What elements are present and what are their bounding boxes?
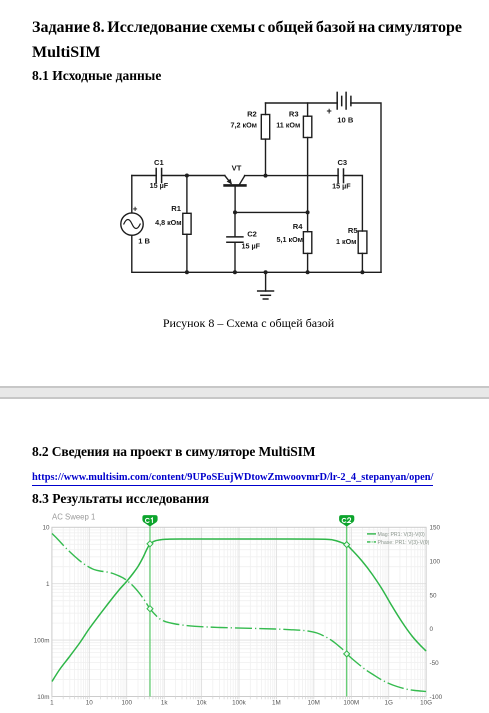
label R4 xyxy=(293,222,303,231)
svg-text:C2: C2 xyxy=(247,230,257,239)
svg-text:10: 10 xyxy=(42,525,50,532)
svg-text:15 µF: 15 µF xyxy=(150,181,169,190)
svg-text:1G: 1G xyxy=(384,700,393,707)
svg-text:R4: R4 xyxy=(293,222,303,231)
label R2 value xyxy=(231,121,258,130)
svg-text:5,1 кОм: 5,1 кОм xyxy=(277,235,304,244)
wire R5 bottom lead xyxy=(361,253,363,272)
wire R1 bottom lead xyxy=(186,234,188,272)
chart plot grid minor lines xyxy=(52,527,426,696)
wire R1 top lead xyxy=(186,176,188,214)
svg-text:150: 150 xyxy=(430,525,441,532)
svg-text:1: 1 xyxy=(46,581,50,588)
svg-text:10: 10 xyxy=(86,700,94,707)
resistor R2 xyxy=(261,115,269,140)
node: R5 bottom junction xyxy=(360,270,364,274)
node: R1 top junction xyxy=(185,174,189,178)
resistor R3 xyxy=(303,116,311,137)
label R3 value xyxy=(276,121,300,130)
svg-text:10k: 10k xyxy=(197,700,208,707)
svg-text:100k: 100k xyxy=(232,700,247,707)
chart SVG xyxy=(0,505,489,713)
label battery value 10 B xyxy=(337,116,354,125)
wire R4 bottom lead xyxy=(307,253,309,272)
svg-text:R2: R2 xyxy=(247,109,257,118)
svg-text:50: 50 xyxy=(430,592,438,599)
svg-text:100: 100 xyxy=(430,558,441,565)
svg-text:100: 100 xyxy=(121,700,132,707)
wire input row from source to C1 xyxy=(132,175,156,177)
svg-text:1: 1 xyxy=(50,700,54,707)
wire base node to R4 xyxy=(307,212,309,231)
node: R3-R4 divider junction xyxy=(306,210,310,214)
wire C3 to R5 xyxy=(344,176,363,232)
svg-text:10G: 10G xyxy=(420,700,432,707)
svg-text:Phase: PR1: V(3)-V(0): Phase: PR1: V(3)-V(0) xyxy=(378,540,430,546)
label C3 value xyxy=(332,182,351,191)
label R1 value xyxy=(155,218,182,227)
capacitor C2 xyxy=(227,237,243,242)
curve Mag PR1 xyxy=(52,539,426,682)
svg-text:VT: VT xyxy=(232,164,242,173)
wire R2 bottom lead to collector node xyxy=(265,139,267,176)
svg-text:C3: C3 xyxy=(337,158,347,167)
wire top rail right of battery and right rail down xyxy=(351,103,381,272)
node: C2 bottom junction xyxy=(233,270,237,274)
chart x axis ticks xyxy=(52,697,426,700)
wire base row xyxy=(235,211,308,213)
wire R2 top lead xyxy=(265,103,267,115)
svg-text:10m: 10m xyxy=(37,694,49,701)
svg-text:Mag: PR1: V(3)-V(0): Mag: PR1: V(3)-V(0) xyxy=(378,532,426,538)
svg-text:100M: 100M xyxy=(343,700,359,707)
label R5 value xyxy=(336,237,357,246)
AC source V2 xyxy=(121,213,143,235)
wire R3 bottom lead crossing collector wire to base node xyxy=(307,138,309,213)
wire left rail below source and bottom rail xyxy=(132,235,381,272)
label R2 xyxy=(247,109,257,118)
wire R3 top lead xyxy=(307,103,309,116)
label C2 value xyxy=(242,242,261,251)
label R1 xyxy=(171,204,181,213)
cursor badge C2 xyxy=(339,515,354,526)
battery V1 10 B xyxy=(337,92,351,109)
wire top rail left of battery xyxy=(266,102,338,104)
svg-text:10 В: 10 В xyxy=(337,116,354,125)
label source plus xyxy=(133,205,138,214)
svg-text:11 кОм: 11 кОм xyxy=(276,121,300,130)
svg-text:R1: R1 xyxy=(171,204,181,213)
node: R4 bottom junction xyxy=(306,270,310,274)
cursor badge C1 xyxy=(142,515,157,526)
svg-text:1k: 1k xyxy=(161,700,169,707)
label R4 value xyxy=(277,235,304,244)
chart legend xyxy=(367,533,376,535)
wire C1 to emitter xyxy=(162,175,225,177)
chart plot border xyxy=(52,527,426,696)
svg-text:+: + xyxy=(133,205,138,214)
chart plot grid decade lines xyxy=(52,527,426,696)
svg-text:10M: 10M xyxy=(308,700,320,707)
svg-text:15 µF: 15 µF xyxy=(332,182,351,191)
wire C2 bottom lead xyxy=(234,242,236,272)
wire collector row to C3 xyxy=(245,175,339,177)
svg-text:-50: -50 xyxy=(430,660,440,667)
svg-text:15 µF: 15 µF xyxy=(242,242,261,251)
svg-text:4,8 кОм: 4,8 кОм xyxy=(155,218,182,227)
node: ground junction xyxy=(264,270,268,274)
cursor C1 line xyxy=(149,525,151,697)
cursor C2 markers xyxy=(344,542,350,548)
capacitor C3 xyxy=(338,169,343,183)
svg-text:7,2 кОм: 7,2 кОм xyxy=(231,121,258,130)
svg-text:C1: C1 xyxy=(154,158,164,167)
svg-text:1M: 1M xyxy=(272,700,281,707)
capacitor C1 xyxy=(156,169,161,183)
svg-text:R5: R5 xyxy=(348,226,358,235)
label C1 xyxy=(154,158,164,167)
cursor C1 markers xyxy=(147,541,153,547)
svg-text:0: 0 xyxy=(430,626,434,633)
label C3 xyxy=(337,158,347,167)
svg-text:100m: 100m xyxy=(34,637,50,644)
node: collector junction xyxy=(264,174,268,178)
ground xyxy=(265,272,267,291)
svg-text:1 В: 1 В xyxy=(138,237,150,246)
svg-text:R3: R3 xyxy=(289,109,299,118)
node: R1 bottom junction xyxy=(185,270,189,274)
resistor R4 xyxy=(303,232,311,254)
wire left rail above source xyxy=(131,176,133,213)
svg-text:AC Sweep 1: AC Sweep 1 xyxy=(52,513,95,522)
curve Phase PR1 xyxy=(52,534,426,692)
label source value 1 B xyxy=(138,237,150,246)
wire base node to C2 xyxy=(234,212,236,236)
label R3 xyxy=(289,109,299,118)
circuit schematic SVG xyxy=(110,85,390,305)
label R5 xyxy=(348,226,358,235)
label C1 value xyxy=(150,181,169,190)
svg-text:1 кОм: 1 кОм xyxy=(336,237,357,246)
label C2 xyxy=(247,230,257,239)
resistor R5 xyxy=(358,231,367,253)
label VT xyxy=(232,164,242,173)
transistor VT xyxy=(225,184,246,187)
resistor R1 xyxy=(183,213,191,234)
svg-text:+: + xyxy=(327,106,332,116)
node: base-C2 junction xyxy=(233,210,237,214)
cursor C2 line xyxy=(346,525,348,697)
label battery plus xyxy=(327,106,332,116)
